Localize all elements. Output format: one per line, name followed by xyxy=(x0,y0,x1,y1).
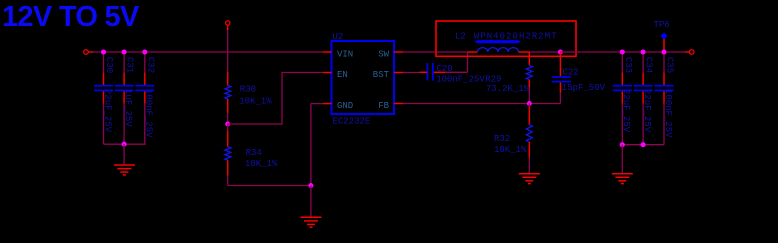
node junction C31/top rail xyxy=(122,49,127,54)
svg-text:22uF_25V: 22uF_25V xyxy=(642,89,652,133)
wire R34 to ground rail xyxy=(227,176,229,186)
capacitor C30 xyxy=(103,52,105,73)
svg-text:L2: L2 xyxy=(455,32,466,42)
svg-text:1uF_25V: 1uF_25V xyxy=(123,89,133,127)
svg-text:100nF_25V: 100nF_25V xyxy=(436,74,485,84)
wire C31 bus to ground xyxy=(123,144,125,165)
capacitor C31 xyxy=(123,52,125,73)
capacitor C22 xyxy=(559,52,561,76)
wire GND pin to ground rail xyxy=(311,103,323,105)
svg-text:R29: R29 xyxy=(485,75,501,85)
resistor R32 xyxy=(528,104,530,107)
wire SW to L2 xyxy=(403,51,468,53)
node ground rail junction xyxy=(308,183,313,188)
node junction C32/top rail xyxy=(142,49,147,54)
wire SW down to C20 xyxy=(467,52,469,72)
svg-text:10K_1%: 10K_1% xyxy=(245,159,278,169)
ground R32 xyxy=(519,173,540,175)
svg-text:15pF_50V: 15pF_50V xyxy=(562,83,606,93)
pin GND xyxy=(323,103,332,105)
svg-text:R30: R30 xyxy=(240,84,256,94)
svg-text:C30: C30 xyxy=(104,57,114,73)
node junction C30/top rail xyxy=(101,49,106,54)
highlight box L2 xyxy=(436,21,576,56)
ground main xyxy=(301,216,322,218)
wire R32 to ground xyxy=(528,158,530,174)
svg-text:73.2K_1%: 73.2K_1% xyxy=(486,84,530,94)
wire C33 bus to ground xyxy=(621,145,623,174)
svg-text:22uF_25V: 22uF_25V xyxy=(621,89,631,133)
svg-text:100nF_25V: 100nF_25V xyxy=(663,89,673,138)
wire input rail to VIN xyxy=(93,51,323,53)
svg-text:C31: C31 xyxy=(125,57,135,73)
port P_OUT 5V output xyxy=(685,51,690,53)
svg-text:EC2232E: EC2232E xyxy=(333,117,371,127)
svg-text:TP6: TP6 xyxy=(654,20,670,30)
node junction C34/bottom bus xyxy=(641,142,646,147)
svg-text:WPN4020H2R2MT: WPN4020H2R2MT xyxy=(474,32,558,42)
wire R29 to FB rail xyxy=(528,88,530,104)
port P_EN top xyxy=(226,21,230,25)
port P_IN 12V input xyxy=(84,50,89,55)
wire R30 to EN node xyxy=(227,113,229,124)
svg-text:C20: C20 xyxy=(437,64,453,74)
svg-text:C35: C35 xyxy=(665,57,675,73)
pin VIN xyxy=(323,51,332,53)
resistor R34 xyxy=(227,124,229,131)
svg-text:C22: C22 xyxy=(563,68,579,78)
pin EN xyxy=(323,72,332,74)
svg-text:EN: EN xyxy=(337,70,348,80)
wire port to R30 (crosses rail, no connect) xyxy=(227,30,229,72)
svg-text:U2: U2 xyxy=(333,32,344,42)
svg-text:R34: R34 xyxy=(246,148,262,158)
pin BST xyxy=(394,72,403,74)
IC U2 EC2232E buck regulator xyxy=(332,41,395,114)
svg-text:GND: GND xyxy=(337,101,353,111)
node FB junction xyxy=(527,101,532,106)
svg-text:C33: C33 xyxy=(623,57,633,73)
svg-text:R32: R32 xyxy=(494,134,510,144)
svg-text:10K_1%: 10K_1% xyxy=(494,145,527,155)
wire BST to C20 xyxy=(403,72,420,74)
inductor L2 xyxy=(468,51,478,53)
svg-text:FB: FB xyxy=(378,101,389,111)
capacitor C35 xyxy=(663,52,665,73)
svg-text:C34: C34 xyxy=(644,57,654,73)
pin FB xyxy=(394,103,403,105)
resistor R29 xyxy=(528,52,530,65)
wire EN node to EN pin xyxy=(228,123,282,125)
capacitor C20 xyxy=(434,71,446,73)
wire down to main ground xyxy=(310,186,312,218)
wire output cap bottom bus xyxy=(622,144,664,146)
capacitor C34 xyxy=(642,52,644,73)
svg-text:VIN: VIN xyxy=(337,49,353,59)
wire C22 to FB rail xyxy=(559,93,561,104)
node EN junction xyxy=(225,121,230,126)
svg-text:C32: C32 xyxy=(145,57,155,73)
node junction TP6/C35/top rail xyxy=(661,49,666,54)
node junction C33/bottom bus xyxy=(620,142,625,147)
svg-text:10K_1%: 10K_1% xyxy=(239,97,272,107)
svg-text:BST: BST xyxy=(373,70,390,80)
capacitor C33 xyxy=(621,52,623,73)
wire input cap bottom bus xyxy=(104,143,146,145)
wire output node to caps xyxy=(560,51,684,53)
resistor R30 xyxy=(227,72,229,86)
ground input caps xyxy=(114,164,135,166)
node junction C31/bottom bus xyxy=(122,142,127,147)
svg-text:22uF_25V: 22uF_25V xyxy=(102,89,112,133)
svg-text:12V TO 5V: 12V TO 5V xyxy=(2,1,140,33)
pin SW xyxy=(394,51,403,53)
node output junction C22 xyxy=(558,49,563,54)
wire L2 to output node xyxy=(530,51,561,53)
node junction C34/top rail xyxy=(641,49,646,54)
svg-text:100nF_25V: 100nF_25V xyxy=(144,89,154,138)
capacitor C32 xyxy=(144,52,146,73)
ground output caps xyxy=(612,173,633,175)
wire FB rail xyxy=(403,103,560,105)
svg-text:SW: SW xyxy=(378,49,389,59)
node junction C33/top rail xyxy=(620,49,625,54)
